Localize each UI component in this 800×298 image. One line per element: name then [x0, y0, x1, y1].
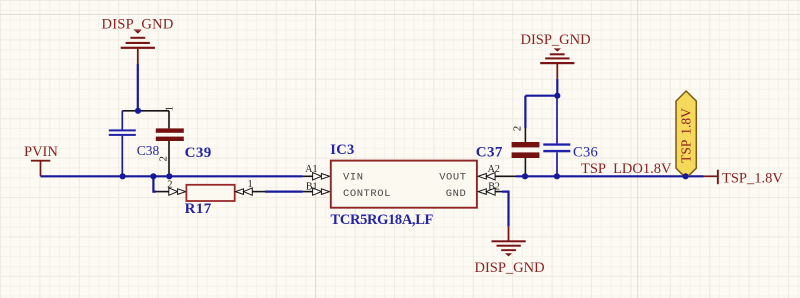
node junction top	[135, 108, 141, 114]
wire gnd to junction	[556, 79, 558, 96]
node junction port/rail	[683, 173, 689, 179]
capacitor C39	[156, 106, 212, 176]
svg-text:DISP_GND: DISP_GND	[475, 260, 545, 276]
svg-text:2: 2	[512, 126, 524, 132]
node junction top-right	[554, 93, 560, 99]
svg-text:2: 2	[167, 180, 172, 191]
svg-text:1: 1	[248, 179, 253, 190]
pin B2	[478, 189, 486, 195]
pin B1	[303, 191, 313, 193]
capacitor C37	[476, 96, 540, 177]
node junction branch/rail	[150, 173, 156, 179]
power port TSP_1.8V	[704, 170, 784, 187]
svg-text:C37: C37	[476, 144, 503, 160]
svg-text:TSP 1.8V: TSP 1.8V	[679, 108, 694, 163]
svg-text:R17: R17	[185, 201, 212, 217]
svg-text:DISP_GND: DISP_GND	[521, 32, 591, 48]
svg-text:TSP LDO1.8V: TSP LDO1.8V	[581, 161, 672, 177]
op-amp IC3 (regulator)	[303, 142, 516, 228]
svg-text:A1: A1	[305, 164, 317, 175]
node junction C39/rail	[166, 173, 172, 179]
svg-text:DISP_GND: DISP_GND	[102, 16, 174, 32]
svg-text:C36: C36	[573, 144, 598, 160]
wire main rail PVIN to IC3	[41, 175, 303, 177]
wire gnd stem to top node	[137, 64, 139, 111]
svg-text:PVIN: PVIN	[24, 144, 58, 160]
svg-text:2: 2	[157, 156, 169, 162]
svg-text:TCR5RG18A,LF: TCR5RG18A,LF	[331, 212, 434, 228]
svg-text:GND: GND	[446, 188, 467, 200]
pin A2	[478, 174, 486, 180]
svg-text:TSP_1.8V: TSP_1.8V	[722, 171, 783, 187]
capacitor C38	[109, 111, 160, 177]
svg-text:A2: A2	[488, 164, 500, 175]
wire R17 to IC3 B1	[265, 191, 303, 193]
IC3 body	[331, 161, 477, 208]
svg-text:IC3: IC3	[330, 142, 354, 158]
capacitor C36	[543, 96, 598, 177]
pin A1	[303, 175, 313, 177]
svg-text:C39: C39	[185, 145, 212, 161]
ground DISP_GND top-left	[102, 16, 174, 64]
svg-text:B2: B2	[488, 181, 500, 192]
wire top horizontal C38 to C39	[122, 110, 169, 112]
node junction C37/rail	[522, 173, 528, 179]
svg-text:B1: B1	[306, 182, 318, 193]
svg-text:VOUT: VOUT	[439, 171, 466, 183]
node junction C38/rail	[120, 173, 126, 179]
power port PVIN	[24, 144, 58, 176]
wire A2 output rail	[516, 175, 704, 177]
svg-text:1: 1	[163, 106, 175, 112]
svg-text:CONTROL: CONTROL	[343, 188, 391, 200]
port TSP 1.8V	[676, 91, 696, 178]
svg-text:VIN: VIN	[343, 171, 364, 183]
wire B2 to ground	[502, 192, 509, 227]
svg-text:C38: C38	[137, 143, 160, 158]
wire C37 top branch	[525, 95, 557, 97]
ground DISP_GND bottom	[475, 226, 545, 276]
resistor R17	[156, 179, 265, 217]
ground DISP_GND top-right	[521, 32, 591, 79]
node junction C36/rail	[554, 173, 560, 179]
wire branch to R17	[153, 176, 156, 191]
